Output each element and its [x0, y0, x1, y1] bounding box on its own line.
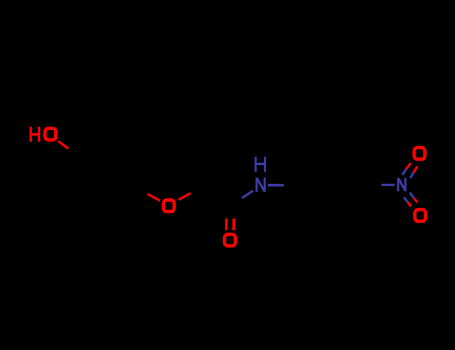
atom label N (nitro): [397, 178, 406, 192]
double bond N=O upper (line 1, blue then red): [402, 163, 410, 175]
bond HO-C1 (phenol C-O, red half): [58, 141, 68, 149]
atom label O (nitro upper): [414, 148, 425, 160]
atom label H of HO (hydroxyl): [30, 127, 41, 142]
double bond N=O lower (line 2, blue then red): [404, 197, 411, 206]
double bond C=O carbonyl, red halves: [226, 219, 233, 231]
bond C2-O ether, red half into O: [148, 194, 161, 201]
bond ring-N nitro, blue half: [381, 184, 394, 186]
double bond N=O upper (line 2, blue then red): [410, 166, 417, 178]
atom label H (amide H): [255, 157, 267, 172]
atom label O (carbonyl): [225, 234, 236, 246]
atom label O (nitro lower): [415, 210, 426, 222]
double bond N=O lower (line 1, blue then red): [410, 193, 418, 203]
atom label N (amide): [256, 178, 266, 192]
bond O ether-CH2, red half out of O: [179, 193, 191, 200]
atom label O of HO (hydroxyl): [45, 128, 56, 140]
bond C(=O)-N amide, blue half: [242, 191, 253, 198]
atom label O (ether): [163, 200, 174, 212]
bond N amide-ring, blue half: [268, 184, 284, 187]
